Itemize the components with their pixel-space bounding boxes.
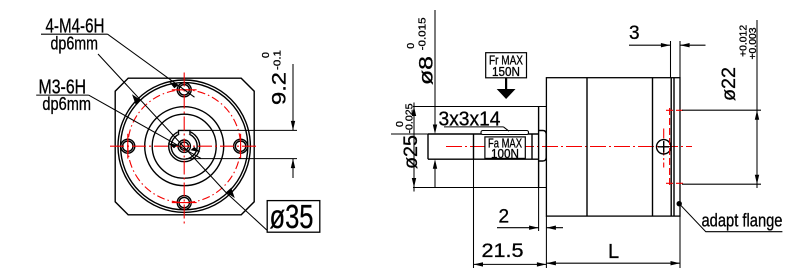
- red hidden bore dia22 in flange: [666, 108, 685, 186]
- M3 tapped hole circles: [178, 140, 190, 152]
- svg-text:-0.015: -0.015: [417, 17, 429, 50]
- label Fr MAX 150N with arrow: [486, 53, 527, 100]
- svg-text:9.2: 9.2: [270, 72, 291, 105]
- dim L: [546, 216, 680, 268]
- svg-text:-0.025: -0.025: [404, 103, 416, 133]
- svg-text:100N: 100N: [491, 146, 519, 161]
- svg-text:3: 3: [629, 23, 640, 44]
- label 4-M4-6H: [41, 16, 195, 98]
- svg-text:2: 2: [499, 207, 510, 228]
- red bolt circle dia35: [128, 90, 241, 203]
- red crosshair S hole: [172, 202, 197, 204]
- dim 2 (boss height): [497, 188, 563, 269]
- svg-text:0: 0: [260, 52, 272, 58]
- red horizontal centerline: [110, 145, 259, 147]
- bolt hole N: [177, 83, 191, 97]
- dim dia8: [391, 10, 438, 188]
- dim dia22: [682, 20, 761, 188]
- shaft step line: [473, 134, 475, 159]
- adapt flange label: [677, 201, 783, 232]
- dim 9.2: [186, 50, 297, 178]
- key 3x3x14 on shaft: [481, 131, 529, 135]
- shaft circle with chamfer: [169, 131, 200, 162]
- boss dia25 face: [538, 107, 540, 188]
- label M3-6H: [36, 77, 201, 159]
- red crosshair N hole: [172, 89, 197, 91]
- output shaft dia8: [428, 134, 539, 159]
- svg-text:ø25: ø25: [401, 135, 422, 169]
- svg-text:ø8: ø8: [417, 56, 438, 85]
- gearbox body: [546, 78, 680, 216]
- circle dia 25 boss: [145, 107, 224, 186]
- circle inner step: [152, 114, 216, 178]
- dia35 leader diagonal across bolt circle: [98, 54, 320, 235]
- outer pilot circle (outer): [118, 80, 250, 212]
- screw symbol on flange: [657, 129, 671, 168]
- bolt hole W: [121, 139, 135, 153]
- red vertical centerline: [183, 73, 185, 227]
- svg-text:adapt flange: adapt flange: [702, 211, 783, 231]
- dia35 box: [267, 201, 320, 233]
- body joint lines: [586, 78, 588, 216]
- svg-text:+0.003: +0.003: [747, 27, 759, 59]
- svg-text:L: L: [608, 241, 619, 263]
- keyway cutout: [178, 129, 191, 135]
- svg-text:-0.1: -0.1: [272, 50, 284, 70]
- svg-text:ø35: ø35: [270, 198, 314, 235]
- leader to M4 hole: [108, 34, 195, 97]
- label 3x3x14: [439, 108, 510, 131]
- dim 21.5: [474, 159, 547, 268]
- red main centerline: [446, 146, 692, 148]
- outer pilot circle (inner): [121, 83, 248, 210]
- svg-text:dp6mm: dp6mm: [42, 94, 91, 114]
- svg-text:ø22: ø22: [719, 67, 740, 101]
- dim dia25: [394, 103, 422, 192]
- red crosshair W hole: [127, 134, 129, 159]
- svg-text:0: 0: [405, 43, 417, 49]
- svg-text:150N: 150N: [492, 64, 520, 79]
- dim 3 (flange thickness): [629, 23, 706, 78]
- adapt flange plate lines: [670, 78, 672, 216]
- bolt hole E: [234, 139, 248, 153]
- shaft collar at boss: [539, 131, 547, 162]
- boss top/bottom edges + extension lines for dia25: [413, 106, 547, 108]
- red crosshair E hole: [240, 134, 242, 159]
- svg-text:21.5: 21.5: [482, 241, 524, 262]
- label Fa MAX 100N: [485, 136, 525, 161]
- svg-text:dp6mm: dp6mm: [51, 34, 99, 54]
- leader to M3 hole: [89, 95, 201, 158]
- flange square plate outline: [115, 78, 254, 215]
- bolt hole S: [177, 196, 191, 210]
